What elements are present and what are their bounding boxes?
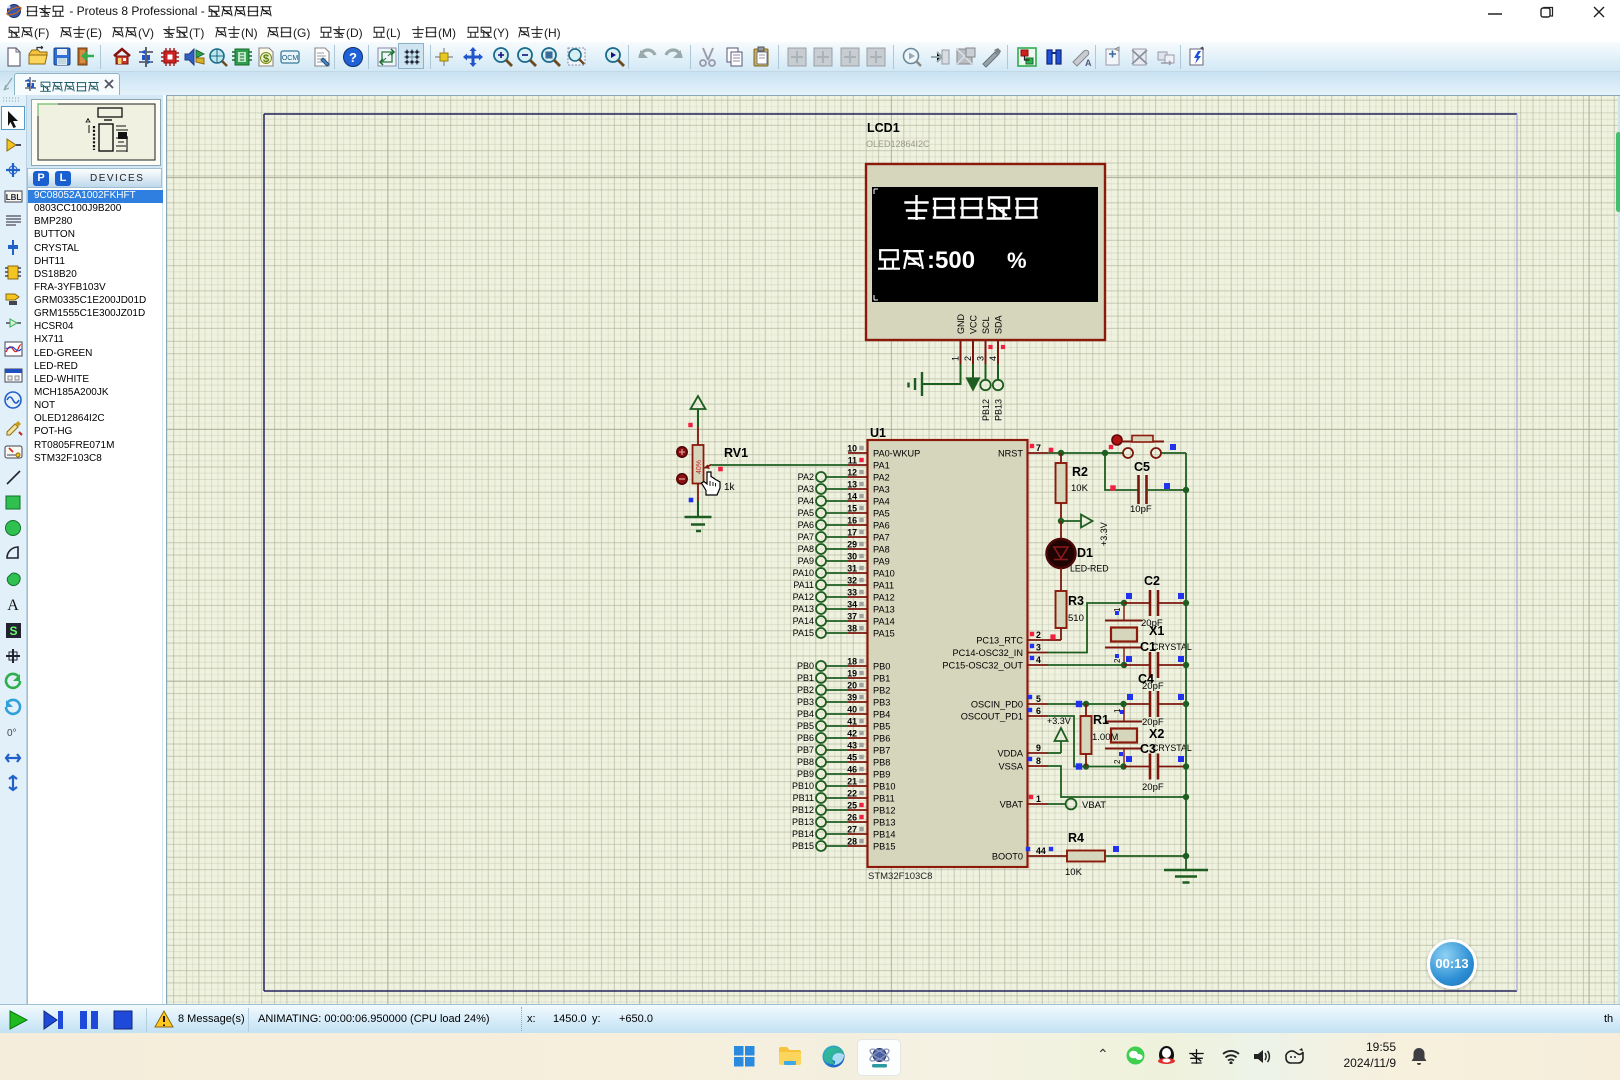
svg-text:PA12: PA12 [793,592,814,602]
svg-text:SDA: SDA [994,315,1004,334]
junction X1 pin2 [1121,662,1127,668]
svg-text:PB11: PB11 [793,793,814,803]
junction NRST-C5 [1102,450,1108,456]
U1 pin 37 (PA14) [847,612,895,627]
junction C5-rail [1183,487,1189,493]
svg-text:PA8: PA8 [798,544,814,554]
U1 pin 14 (PA4) [847,492,889,507]
svg-text:OLED12864I2C: OLED12864I2C [866,139,930,149]
wire OSC_IN net (pin 5) [1048,701,1123,707]
svg-text:X2: X2 [1149,727,1164,741]
ground (right rail) [1164,870,1208,883]
terminal PA2 [798,472,848,482]
svg-text:PB5: PB5 [873,722,890,732]
terminal PB11 [793,793,848,803]
svg-text:40: 40 [847,705,857,715]
svg-text:PA11: PA11 [873,581,894,591]
svg-text:46: 46 [847,765,857,775]
terminal PB8 [797,757,848,767]
terminal PB14 [792,829,848,839]
svg-text:A: A [1085,58,1092,68]
svg-text:PB13: PB13 [792,817,814,827]
wire PC14 net [1048,603,1123,653]
wire PA1 to RV1 wiper [712,465,849,471]
terminal PB13 (LCD SDA) [993,364,1004,421]
U1 pin 2 (PC13_RTC) [976,630,1048,646]
LCD pin state markers [988,345,1005,349]
svg-text:38: 38 [847,624,857,634]
svg-text:32: 32 [847,576,857,586]
svg-text:BOOT0: BOOT0 [992,852,1023,862]
svg-text:PA14: PA14 [793,616,814,626]
svg-text:31: 31 [847,564,857,574]
svg-text:1: 1 [1036,794,1041,804]
svg-text:PA0-WKUP: PA0-WKUP [873,449,920,459]
svg-text:15: 15 [847,504,857,514]
svg-text:VSSA: VSSA [998,762,1023,772]
svg-text:4: 4 [988,356,998,361]
U1 pin 9 (VDDA) [997,743,1048,759]
svg-text:RV1: RV1 [724,446,748,460]
ground (RV1) [685,498,712,531]
svg-text:S: S [9,624,17,638]
svg-text:1: 1 [1113,708,1122,713]
terminal PA12 [793,592,848,602]
U1 pin 10 (PA0-WKUP) [847,444,920,459]
svg-text:PC14-OSC32_IN: PC14-OSC32_IN [953,648,1023,658]
svg-text:$: $ [263,53,269,65]
svg-text:1: 1 [951,356,961,361]
svg-text:17: 17 [847,528,857,538]
U1 pin 12 (PA2) [847,468,889,483]
wire ground rail (right) [1185,490,1187,870]
svg-text:R2: R2 [1072,465,1088,479]
svg-text:37: 37 [847,612,857,622]
ground (LCD pin 1) [909,372,923,396]
U1 pin 1 (VBAT) [1000,794,1048,810]
svg-text:PA10: PA10 [873,569,895,579]
svg-text:PB9: PB9 [797,769,814,779]
svg-text:PB2: PB2 [873,686,890,696]
svg-text:C4: C4 [1138,672,1154,686]
U1 pin 32 (PA11) [847,576,894,591]
svg-text::500: :500 [927,247,975,274]
svg-text:VBAT: VBAT [1082,800,1106,811]
junction R2-D1 [1058,518,1064,524]
U1 pin 13 (PA3) [847,480,889,495]
svg-text:5: 5 [1036,694,1041,704]
push button (reset) [1109,435,1176,458]
svg-text:PB8: PB8 [873,758,890,768]
svg-text:29: 29 [847,540,857,550]
U1 pin 41 (PB5) [847,717,890,732]
U1 pin 25 (PB12) [847,801,895,816]
U1 pin 19 (PB1) [847,669,890,684]
svg-text:13: 13 [847,480,857,490]
capacitor C1 20pF [1115,640,1186,692]
svg-text:PB2: PB2 [797,685,814,695]
power +3.3V terminal (between R2 and D1) [1061,515,1109,547]
svg-text:PC13_RTC: PC13_RTC [976,636,1023,646]
svg-text:LED-RED: LED-RED [1070,564,1109,574]
svg-text:7: 7 [1036,443,1041,453]
svg-text:PB12: PB12 [873,806,895,816]
resistor R2 10K [1056,453,1089,521]
svg-text:PB4: PB4 [797,709,814,719]
LED D1 LED-RED [1047,521,1109,591]
svg-text:PB12: PB12 [981,399,991,421]
svg-text:PB6: PB6 [797,733,814,743]
svg-text:10K: 10K [1065,867,1083,878]
wire OSC_OUT net (pin 6) [1048,716,1123,770]
junction X2 pin2 [1120,763,1126,769]
U1 pin 3 (PC14-OSC32_IN) [953,643,1048,659]
terminal PB4 [797,709,848,719]
svg-text:R1: R1 [1093,713,1109,727]
terminal PA14 [793,616,848,626]
terminal PA6 [798,520,848,530]
U1 pin 34 (PA13) [847,600,895,615]
U1 pin 39 (PB3) [847,693,890,708]
svg-text:10pF: 10pF [1130,504,1152,515]
terminal PA15 [793,628,848,638]
svg-text:PB11: PB11 [873,794,895,804]
svg-text:PB3: PB3 [873,698,890,708]
terminal PB2 [797,685,848,695]
terminal PB7 [797,745,848,755]
power terminal (RV1 top, up arrow) [691,396,706,427]
svg-text:3: 3 [976,356,986,361]
svg-text:PA7: PA7 [798,532,814,542]
terminal PB15 [792,841,848,851]
svg-text:PA13: PA13 [793,604,814,614]
sheet border [264,114,1517,991]
capacitor C3 20pF [1119,742,1186,793]
terminal PA7 [798,532,848,542]
U1 pin 20 (PB2) [847,681,890,696]
svg-text:PB1: PB1 [873,674,890,684]
svg-text:%: % [1007,248,1027,273]
wire NRST net [1048,448,1186,490]
terminal PB0 [797,661,848,671]
LCD pin names GND VCC SCL SDA [956,314,1004,335]
svg-text:2: 2 [1113,759,1122,764]
svg-text:34: 34 [847,600,857,610]
svg-text:1k: 1k [724,482,736,493]
svg-text:OCM: OCM [282,55,299,62]
power terminal VCC (LCD pin 2, down arrow) [967,364,980,391]
svg-text:PB13: PB13 [873,818,895,828]
junction C4-rail [1183,701,1189,707]
svg-text:PA6: PA6 [798,520,814,530]
U1 pin 11 (PA1) [848,456,890,471]
U1 pin 15 (PA5) [847,504,889,519]
svg-text:C5: C5 [1134,460,1150,474]
svg-text:PA3: PA3 [873,485,890,495]
U1 pin 18 (PB0) [847,657,890,672]
svg-text:PA13: PA13 [873,605,895,615]
MCU U1 STM32F103C8 [868,426,1028,882]
U1 pin 22 (PB11) [847,789,895,804]
terminal PB9 [797,769,848,779]
LCD display LCD1 (OLED12864I2C) [866,121,1105,340]
LCD text line 1: 粉尘传感器 [906,196,1037,219]
svg-text:PB13: PB13 [994,399,1004,421]
U1 pin 44 (BOOT0) [992,846,1053,862]
junction NRST-R2 [1058,450,1064,456]
svg-text:2: 2 [1036,630,1041,640]
U1 pin 27 (PB14) [847,825,895,840]
U1 pin 28 (PB15) [847,837,895,852]
svg-text:C2: C2 [1144,574,1160,588]
svg-text:PB10: PB10 [873,782,895,792]
svg-text:PA10: PA10 [793,568,814,578]
U1 pin 43 (PB7) [847,741,890,756]
LCD text line 2: 浓度:500 % [879,247,1026,274]
svg-text:41: 41 [847,717,857,727]
svg-text:PA15: PA15 [873,629,895,639]
U1 pin 38 (PA15) [847,624,895,639]
svg-text:PC15-OSC32_OUT: PC15-OSC32_OUT [942,661,1023,671]
terminal VBAT [1048,799,1106,811]
svg-text:PA14: PA14 [873,617,895,627]
svg-text:PA15: PA15 [793,628,814,638]
U1 pin 17 (PA7) [847,528,889,543]
U1 pin 8 (VSSA) [998,756,1048,772]
terminal PB10 [792,781,848,791]
svg-text:LCD1: LCD1 [867,121,900,135]
wire LCD GND net [922,364,961,384]
terminal PA5 [798,508,848,518]
junction R1 bottom [1083,763,1089,769]
svg-text:1.00M: 1.00M [1092,732,1118,743]
svg-text:PA8: PA8 [873,545,890,555]
svg-text:C1: C1 [1140,640,1156,654]
junction C1-rail [1183,662,1189,668]
svg-text:PB3: PB3 [797,697,814,707]
svg-text:14: 14 [847,492,857,502]
svg-text:PB8: PB8 [797,757,814,767]
svg-text:NRST: NRST [998,449,1023,459]
terminal PB3 [797,697,848,707]
wire VSSA net [1048,766,1186,797]
terminal PB6 [797,733,848,743]
svg-text:LBL: LBL [6,193,22,202]
svg-text:VDDA: VDDA [997,749,1023,759]
potentiometer RV1 1k [677,423,748,501]
svg-text:4: 4 [1036,655,1041,665]
crystal X1 CRYSTAL [1105,603,1192,665]
svg-text:19: 19 [847,669,857,679]
resistor R3 510 [1056,591,1085,640]
svg-text:26: 26 [847,813,857,823]
terminal PA13 [793,604,848,614]
svg-text:PB10: PB10 [792,781,814,791]
svg-text:27: 27 [847,825,857,835]
svg-text:PB7: PB7 [797,745,814,755]
svg-text:D1: D1 [1077,546,1093,560]
svg-text:PA1: PA1 [873,461,890,471]
svg-text:PB7: PB7 [873,746,890,756]
terminal PA3 [798,484,848,494]
mouse cursor (hand) [702,472,721,495]
U1 pin 45 (PB8) [847,753,890,768]
U1 pin 30 (PA9) [847,552,889,567]
svg-text:PA11: PA11 [793,580,814,590]
svg-text:PA4: PA4 [798,496,814,506]
U1 pin 16 (PA6) [847,516,889,531]
svg-text:8: 8 [1036,756,1041,766]
svg-text:C3: C3 [1140,742,1156,756]
terminal PB1 [797,673,848,683]
U1 pin 21 (PB10) [847,777,895,792]
U1 pin 5 (OSCIN_PD0) [971,694,1048,710]
svg-text:PB9: PB9 [873,770,890,780]
svg-text:22: 22 [847,789,857,799]
terminal PA11 [793,580,848,590]
resistor R1 1.00M [1081,704,1119,767]
svg-text:510: 510 [1068,613,1084,624]
svg-text:PA5: PA5 [798,508,814,518]
svg-text:PA9: PA9 [798,556,814,566]
junction R1 top [1083,701,1089,707]
wire PC13 net (R3 to pin 2) [1048,634,1061,640]
U1 pin 29 (PA8) [847,540,889,555]
terminal PA4 [798,496,848,506]
svg-text:PA2: PA2 [798,472,814,482]
U1 pin 42 (PB6) [847,729,890,744]
svg-text:R3: R3 [1068,594,1084,608]
svg-text:PA12: PA12 [873,593,895,603]
svg-text:PB0: PB0 [873,662,890,672]
crystal X2 CRYSTAL [1105,704,1192,767]
junction VSSA-rail [1183,794,1189,800]
svg-text:PA4: PA4 [873,497,890,507]
power +3.3V terminal (VDDA) [1047,716,1071,753]
capacitor C2 20pF [1115,574,1186,629]
svg-text:STM32F103C8: STM32F103C8 [868,871,932,882]
capacitor C5 10pF [1105,453,1186,515]
svg-text:18: 18 [847,657,857,667]
svg-text:45: 45 [847,753,857,763]
svg-text:+3.3V: +3.3V [1099,522,1109,546]
terminal PA10 [793,568,848,578]
svg-text:+3.3V: +3.3V [1047,716,1071,726]
junction R4-rail [1183,853,1189,859]
svg-text:11: 11 [848,456,857,466]
simulation time badge 00:13 [1427,939,1477,989]
svg-text:43: 43 [847,741,857,751]
svg-text:PB1: PB1 [797,673,814,683]
svg-text:28: 28 [847,837,857,847]
svg-text:VCC: VCC [969,314,979,334]
svg-text:PA9: PA9 [873,557,890,567]
svg-text:PB15: PB15 [792,841,814,851]
svg-text:PB6: PB6 [873,734,890,744]
svg-text:?: ? [349,50,357,65]
U1 pin 26 (PB13) [847,813,895,828]
resistor R4 10K (BOOT0) [1048,831,1186,878]
U1 pin 46 (PB9) [847,765,890,780]
svg-text:GND: GND [956,314,966,335]
svg-text:39: 39 [847,693,857,703]
terminal PB12 [792,805,848,815]
U1 pin 7 (NRST) [998,443,1048,459]
terminal PB13 [792,817,848,827]
junction C3-rail [1183,763,1189,769]
svg-text:VBAT: VBAT [1000,800,1024,810]
wire PC15 net [1048,664,1123,666]
svg-text:21: 21 [847,777,857,787]
svg-text:PB14: PB14 [873,830,895,840]
terminal PA9 [798,556,848,566]
capacitor C4 20pF [1120,672,1186,728]
svg-text:20pF: 20pF [1141,618,1163,629]
svg-text:R4: R4 [1068,831,1084,845]
U1 pin 6 (OSCOUT_PD1) [961,706,1048,722]
terminal PB12 (LCD SCL) [980,364,991,421]
svg-text:PA3: PA3 [798,484,814,494]
svg-text:2: 2 [1113,658,1122,663]
svg-text:10K: 10K [1071,483,1089,494]
svg-text:42: 42 [847,729,857,739]
U1 pin 33 (PA12) [847,588,895,603]
svg-text:PB15: PB15 [873,842,895,852]
LCD pins 1-4 [951,340,999,364]
svg-text:40%: 40% [696,460,703,474]
svg-text:30: 30 [847,552,857,562]
svg-text:16: 16 [847,516,857,526]
svg-text:PB5: PB5 [797,721,814,731]
svg-text:A: A [7,597,19,614]
svg-text:PB12: PB12 [792,805,814,815]
svg-text:33: 33 [847,588,857,598]
svg-text:0°: 0° [7,728,17,739]
svg-text:PA2: PA2 [873,473,890,483]
U1 pin 40 (PB4) [847,705,890,720]
svg-text:20pF: 20pF [1142,782,1164,793]
svg-text:PB14: PB14 [792,829,814,839]
svg-text:10: 10 [847,444,857,454]
U1 pin 31 (PA10) [847,564,895,579]
U1 pin 4 (PC15-OSC32_OUT) [942,655,1048,671]
terminal PA8 [798,544,848,554]
svg-text:20: 20 [847,681,857,691]
svg-text:12: 12 [847,468,857,478]
scrollbar thumb [1616,132,1620,212]
svg-text:3: 3 [1036,643,1041,653]
junction X2 pin1 [1120,701,1126,707]
svg-text:PA5: PA5 [873,509,890,519]
svg-text:25: 25 [847,801,857,811]
svg-text:PA6: PA6 [873,521,890,531]
svg-text:SCL: SCL [981,316,991,334]
junction X1 pin1 [1121,600,1127,606]
junction C2-rail [1183,600,1189,606]
svg-text:6: 6 [1036,706,1041,716]
svg-text:PA7: PA7 [873,533,890,543]
svg-text:U1: U1 [870,426,886,440]
svg-text:9: 9 [1036,743,1041,753]
svg-text:44: 44 [1036,846,1046,856]
svg-text:OSCIN_PD0: OSCIN_PD0 [971,700,1023,710]
terminal PB5 [797,721,848,731]
svg-text:OSCOUT_PD1: OSCOUT_PD1 [961,712,1023,722]
svg-text:2: 2 [963,356,973,361]
svg-text:PB0: PB0 [797,661,814,671]
svg-text:PB4: PB4 [873,710,890,720]
